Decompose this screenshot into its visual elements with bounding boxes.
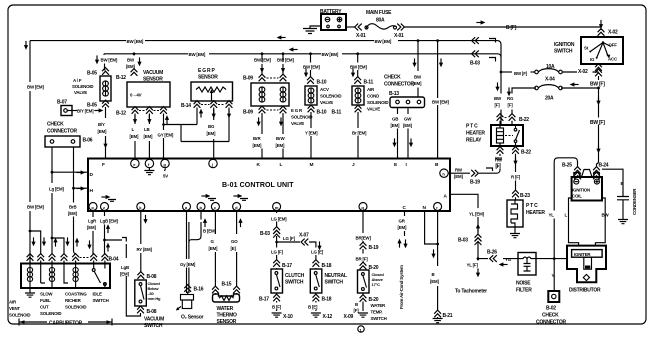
wire YL from coil minus via B-25 — [554, 158, 577, 259]
svg-text:CUT: CUT — [40, 305, 49, 310]
svg-text:[EM]: [EM] — [120, 272, 129, 277]
ground (battery) — [303, 29, 317, 34]
wire GB[EM] to pin E — [397, 108, 399, 160]
wire 20A branch from ignition feed — [597, 87, 600, 90]
wire link GY to EGRP left lead — [164, 124, 198, 126]
svg-text:TEMP.: TEMP. — [371, 310, 383, 315]
svg-text:BW [EM]: BW [EM] — [277, 58, 294, 63]
pin c (circled) — [211, 203, 219, 211]
wire BW[F] 10A branch — [501, 71, 512, 73]
svg-text:C: C — [403, 205, 407, 211]
svg-text:BW: BW — [127, 58, 135, 63]
wire battery to ground — [310, 26, 321, 28]
pin k (circled) — [137, 203, 145, 211]
svg-text:MAIN FUSE: MAIN FUSE — [366, 10, 392, 16]
svg-text:M: M — [310, 162, 314, 168]
pin d (circled) — [233, 203, 241, 211]
svg-text:BG: BG — [208, 124, 215, 129]
svg-text:CHECK: CHECK — [47, 122, 64, 128]
distributor — [567, 246, 606, 283]
svg-text:Lg [EM]: Lg [EM] — [49, 187, 64, 192]
svg-text:VALVE: VALVE — [367, 107, 380, 112]
svg-text:VALVE: VALVE — [291, 121, 304, 126]
wire feeder x64 — [51, 237, 54, 240]
svg-text:B-24: B-24 — [599, 163, 609, 169]
svg-text:B: B — [621, 181, 624, 186]
wire EGRP right lead — [228, 108, 230, 142]
svg-text:F: F — [102, 162, 105, 168]
condenser — [617, 197, 629, 220]
wire L[EM] to pin e — [134, 114, 136, 160]
wire RG[F] to relay — [507, 87, 511, 96]
connector B-03 marks on rails — [472, 37, 479, 44]
connector B-08 (bottom) — [137, 306, 144, 313]
wire EGRP left lead — [196, 108, 198, 125]
svg-text:IDLE: IDLE — [93, 292, 102, 297]
wire D: control unit to Lg feeder — [52, 147, 88, 238]
svg-text:B-18: B-18 — [322, 263, 332, 269]
O2 sensor — [176, 292, 194, 311]
svg-text:SOLENOID: SOLENOID — [9, 313, 30, 318]
svg-text:GB: GB — [392, 117, 398, 122]
branch hooks — [489, 39, 496, 43]
connector B-18 (bottom) — [313, 294, 320, 301]
vacuum switch — [135, 280, 147, 306]
connector B-23 — [512, 190, 519, 197]
svg-text:B [EM]: B [EM] — [203, 229, 216, 234]
svg-text:VALVE: VALVE — [320, 100, 333, 105]
svg-text:B-26: B-26 — [487, 250, 497, 256]
wire stubs into carburetor — [30, 261, 105, 264]
svg-text:To Tachometer: To Tachometer — [455, 289, 487, 295]
wire battery to fuse — [346, 26, 355, 28]
svg-text:SENSOR: SENSOR — [198, 75, 218, 81]
svg-text:10A: 10A — [546, 64, 555, 70]
svg-text:B-05: B-05 — [87, 71, 97, 77]
svg-text:5V: 5V — [163, 174, 168, 179]
neutral switch — [310, 269, 322, 293]
svg-text:COND: COND — [367, 94, 379, 99]
svg-text:X-02: X-02 — [578, 69, 588, 75]
air vent solenoid coil — [27, 264, 32, 289]
wire BG[EM] to pin j — [213, 108, 215, 160]
wire EGRP link lower — [181, 125, 229, 142]
svg-text:YL: YL — [549, 213, 555, 218]
svg-text:B [F]: B [F] — [272, 305, 282, 310]
svg-text:B-19: B-19 — [470, 180, 480, 186]
svg-text:SOLENOID: SOLENOID — [291, 115, 312, 120]
svg-text:SOLENOID: SOLENOID — [320, 94, 341, 99]
wire Gy[EM] O2 sensor pair — [187, 211, 189, 294]
P.T.C heater relay — [491, 125, 523, 146]
svg-text:LB: LB — [144, 127, 149, 132]
svg-text:From Air-Cond System: From Air-Cond System — [399, 265, 404, 309]
svg-text:B: B — [432, 272, 435, 277]
svg-text:X-02: X-02 — [608, 30, 618, 36]
svg-text:B: B — [435, 162, 439, 168]
svg-text:COIL: COIL — [572, 194, 582, 199]
svg-text:B-03: B-03 — [458, 238, 468, 244]
connector B-20 (top) — [360, 262, 367, 269]
svg-text:B-10: B-10 — [317, 80, 327, 86]
wire Br[EM] to pin J — [357, 112, 359, 159]
svg-text:B-02: B-02 — [546, 306, 556, 312]
svg-text:SOLENOID: SOLENOID — [40, 311, 61, 316]
wire LB[EM] to pin f — [148, 114, 150, 160]
wire pin N + pin r to ground B-21 — [425, 211, 438, 312]
ground icon (mid2 internal) — [233, 194, 248, 200]
wire Y to check connector B-02 — [553, 259, 555, 291]
svg-text:B-07: B-07 — [57, 100, 67, 106]
wire BW[EM] left vertical x=30 — [29, 41, 31, 264]
wire feeder x75.6 (BrB) — [74, 250, 76, 254]
wire Y[EM] to pin M — [310, 112, 312, 159]
svg-text:B-15: B-15 — [222, 282, 232, 288]
svg-text:FUEL: FUEL — [40, 298, 51, 303]
svg-text:SWITCH: SWITCH — [554, 49, 573, 55]
svg-text:CONNECTOR: CONNECTOR — [536, 320, 567, 326]
wire drop from rail2 — [133, 52, 136, 55]
svg-text:[EM]: [EM] — [253, 143, 262, 148]
svg-text:DISTRIBUTOR: DISTRIBUTOR — [569, 288, 601, 294]
wire feeder x52 (Lg) — [51, 238, 53, 254]
wire GW[EM] to pin I — [407, 108, 409, 160]
svg-text:B-09: B-09 — [243, 110, 253, 116]
svg-text:[F]: [F] — [495, 103, 501, 108]
svg-text:LgB: LgB — [121, 265, 129, 270]
svg-text:COASTING: COASTING — [65, 292, 87, 297]
svg-text:B-03: B-03 — [260, 231, 270, 237]
fuse 10A X-04 — [535, 69, 563, 74]
svg-text:B-12: B-12 — [116, 75, 126, 81]
svg-text:IGNITION: IGNITION — [554, 42, 575, 48]
svg-text:SLOW: SLOW — [40, 292, 53, 297]
svg-text:WATER: WATER — [217, 306, 234, 312]
svg-text:B [E]: B [E] — [308, 305, 318, 310]
pin m (circled) — [273, 203, 281, 211]
svg-text:IGNITER: IGNITER — [574, 252, 591, 257]
connector B-21 + ground — [434, 310, 441, 317]
svg-text:20A: 20A — [545, 96, 554, 102]
svg-text:B-19: B-19 — [369, 245, 379, 251]
wire R[F] relay contact to PTC heater — [515, 154, 517, 191]
wire BW[EM] to pin B — [436, 39, 439, 42]
carburetor measure line — [19, 319, 112, 326]
pin o (circled) — [89, 203, 97, 211]
svg-text:CHECK: CHECK — [542, 313, 559, 319]
svg-text:YG: YG — [505, 257, 512, 262]
svg-text:CARBURETOR: CARBURETOR — [49, 321, 83, 327]
svg-text:BR[EW]: BR[EW] — [356, 236, 372, 241]
wire drop to B-13 (from rail1) — [417, 39, 420, 42]
wire RY[EM] pin k to vacuum switch — [140, 211, 142, 273]
svg-text:BW [F]: BW [F] — [590, 120, 605, 126]
noise filter — [518, 253, 536, 276]
P.T.C heater — [507, 200, 523, 227]
svg-text:H: H — [90, 188, 94, 194]
svg-text:D: D — [90, 172, 94, 178]
connector B-20 (bottom) — [360, 295, 367, 302]
svg-text:CONNECTOR: CONNECTOR — [47, 129, 78, 135]
svg-text:B-09: B-09 — [243, 76, 253, 82]
svg-text:Gy [EM]: Gy [EM] — [180, 262, 196, 267]
svg-text:B-21: B-21 — [443, 313, 453, 319]
svg-text:K: K — [257, 162, 261, 168]
svg-text:J: J — [352, 162, 355, 168]
svg-text:AIR: AIR — [9, 300, 17, 305]
svg-text:E G R P: E G R P — [198, 68, 216, 74]
svg-text:X-12: X-12 — [323, 314, 333, 320]
wire LG[EM] pin m down — [276, 211, 278, 270]
svg-text:BW [EM]: BW [EM] — [127, 39, 144, 44]
svg-text:[F]: [F] — [508, 103, 514, 108]
svg-text:VACUUM: VACUUM — [144, 317, 164, 323]
svg-text:IGNITION: IGNITION — [572, 188, 590, 193]
svg-text:B-17: B-17 — [259, 297, 269, 303]
svg-text:B-14: B-14 — [181, 103, 191, 109]
svg-text:SOLENOID: SOLENOID — [367, 100, 388, 105]
svg-text:RICHER: RICHER — [65, 298, 82, 303]
svg-text:B-08: B-08 — [147, 309, 157, 315]
svg-text:B/Y [EM]: B/Y [EM] — [77, 109, 94, 114]
svg-text:BW [EM]: BW [EM] — [27, 205, 44, 210]
svg-text:P T C: P T C — [466, 124, 478, 130]
EGR solenoid valve — [251, 83, 289, 106]
svg-text:B [F]: B [F] — [506, 25, 517, 31]
svg-text:[F]: [F] — [354, 308, 360, 313]
water thermo sensor — [213, 293, 240, 302]
svg-text:ACC: ACC — [608, 57, 618, 62]
connector B-24 chevrons — [593, 167, 600, 180]
connector B-22 (top of relay) — [497, 114, 504, 121]
svg-text:O₂ Sensor: O₂ Sensor — [181, 315, 204, 321]
svg-text:[EM]: [EM] — [454, 174, 463, 179]
water temp switch — [358, 270, 370, 293]
svg-text:GW: GW — [404, 117, 412, 122]
svg-text:P T C: P T C — [526, 203, 538, 209]
svg-text:SOLENOID: SOLENOID — [65, 305, 86, 310]
wire feeder x40.7 from BW — [29, 230, 32, 233]
svg-text:[EM]: [EM] — [207, 131, 216, 136]
svg-text:GR: GR — [399, 219, 406, 224]
svg-text:[EM]: [EM] — [144, 134, 153, 139]
wire LgB branch to vacuum switch return — [103, 239, 106, 242]
wire BW[F] ignition switch down — [597, 64, 599, 164]
pin q (circled) — [359, 203, 367, 211]
svg-text:X-07: X-07 — [299, 233, 309, 239]
svg-text:VACUUM: VACUUM — [143, 70, 163, 76]
svg-text:A / F: A / F — [73, 78, 82, 83]
svg-text:mm·Hg: mm·Hg — [148, 296, 162, 301]
air cond solenoid valve — [352, 86, 364, 105]
check connector B-02 — [548, 291, 559, 302]
wire BR[EW] pin q down — [362, 211, 364, 271]
svg-text:WATER: WATER — [371, 303, 387, 308]
wire drops from rail2 — [261, 52, 264, 55]
svg-text:CONDENSER: CONDENSER — [632, 188, 637, 215]
wire merge vertical x=501 down to relay — [500, 45, 502, 126]
wire BrR[EM] to pin K — [261, 113, 263, 159]
svg-text:Y: Y — [552, 273, 555, 278]
svg-text:AIR: AIR — [367, 87, 375, 92]
svg-text:[EM]: [EM] — [98, 129, 107, 134]
svg-text:LG [EM]: LG [EM] — [271, 217, 287, 222]
svg-text:RG: RG — [507, 96, 514, 101]
svg-text:LG [F]: LG [F] — [283, 236, 295, 241]
connector B-19 — [360, 242, 367, 249]
svg-text:B-22: B-22 — [521, 150, 531, 156]
check connector B-06 — [45, 136, 80, 147]
svg-text:BrR: BrR — [253, 136, 261, 141]
connector B-17 (bottom) — [273, 294, 280, 301]
wire rail1 BW[EM] y=40.6 — [30, 41, 501, 45]
svg-text:SWITCH: SWITCH — [144, 323, 163, 329]
svg-text:BR [F]: BR [F] — [356, 257, 369, 262]
svg-text:[EM]: [EM] — [403, 123, 412, 128]
svg-text:B-11: B-11 — [331, 110, 341, 116]
svg-text:[EM]: [EM] — [430, 279, 439, 284]
pin b (circled) — [197, 203, 205, 211]
ACV solenoid valve — [305, 86, 317, 105]
svg-text:B-16: B-16 — [194, 287, 204, 293]
pin j (circled) — [209, 159, 217, 167]
connector B-11 (bottom) — [355, 105, 362, 112]
svg-text:BrB: BrB — [69, 205, 76, 210]
svg-text:17°C: 17°C — [372, 282, 380, 287]
svg-text:NEUTRAL: NEUTRAL — [325, 273, 347, 279]
svg-text:B-10: B-10 — [317, 110, 327, 116]
svg-text:B-04: B-04 — [109, 257, 119, 263]
svg-text:SOLENOID: SOLENOID — [72, 84, 93, 89]
ground (condenser) — [618, 220, 628, 224]
svg-text:BW [EM]: BW [EM] — [101, 58, 118, 63]
pin r (circled) — [434, 203, 442, 211]
wire drop — [310, 54, 312, 78]
slow fuel cut solenoid coil — [41, 264, 55, 289]
connector B-08 (top) — [137, 272, 144, 279]
wire drop — [357, 54, 359, 78]
svg-text:BrW: BrW — [276, 136, 285, 141]
svg-text:BW [F]: BW [F] — [590, 82, 605, 88]
svg-text:LgR: LgR — [88, 219, 97, 224]
pin z (circled) — [101, 203, 109, 211]
svg-text:[E]: [E] — [231, 246, 237, 251]
connector B-22 (bottom of relay) — [497, 147, 504, 154]
svg-text:BW [EM]: BW [EM] — [322, 52, 339, 57]
svg-text:B-17: B-17 — [282, 263, 292, 269]
svg-text:[EM]: [EM] — [68, 211, 77, 216]
connector B-04 row — [27, 254, 109, 261]
svg-text:B/Y: B/Y — [98, 122, 105, 127]
svg-text:[EM]: [EM] — [130, 134, 139, 139]
svg-text:[EM]: [EM] — [398, 225, 407, 230]
connector X-02 (top) — [598, 29, 605, 36]
svg-text:BW [EM]: BW [EM] — [254, 58, 271, 63]
svg-text:YL [F]: YL [F] — [467, 263, 479, 268]
svg-text:[EM]: [EM] — [391, 123, 400, 128]
svg-text:CONNECTOR: CONNECTOR — [384, 82, 415, 88]
svg-text:HEATER: HEATER — [526, 210, 545, 216]
svg-text:RW: RW — [495, 156, 503, 161]
svg-text:BW: BW — [602, 213, 610, 218]
svg-text:B-13: B-13 — [389, 91, 399, 97]
svg-text:SWITCH: SWITCH — [325, 280, 344, 286]
svg-text:X-04: X-04 — [545, 77, 555, 83]
carburetor box — [21, 264, 110, 289]
svg-text:B-08: B-08 — [147, 274, 157, 280]
svg-text:Y [EM]: Y [EM] — [305, 131, 318, 136]
battery — [321, 14, 346, 30]
pin f (circled) — [145, 159, 153, 167]
svg-text:CLUTCH: CLUTCH — [285, 273, 305, 279]
wire B/Y[EM] down to pin F — [105, 107, 107, 159]
svg-text:B-06: B-06 — [83, 138, 93, 144]
ground (pin f internal) — [148, 168, 150, 170]
svg-text:B-23: B-23 — [520, 193, 530, 199]
svg-text:[F]: [F] — [496, 163, 502, 168]
svg-text:VENT: VENT — [9, 306, 20, 311]
main fuse 80A — [355, 24, 405, 31]
svg-text:X-10: X-10 — [283, 314, 293, 320]
svg-text:SWITCH: SWITCH — [285, 280, 304, 286]
svg-text:RY [EM]: RY [EM] — [137, 247, 153, 252]
connector B-16 — [184, 285, 191, 292]
svg-text:GY [EM]: GY [EM] — [158, 133, 174, 138]
svg-text:B-18: B-18 — [322, 297, 332, 303]
pin h (circled) — [440, 169, 448, 177]
svg-text:BW [EM]: BW [EM] — [189, 52, 206, 57]
wire YL[EM] pin A down — [450, 194, 478, 260]
svg-text:LG [E]: LG [E] — [311, 250, 324, 255]
pin e (circled) — [131, 159, 139, 167]
wire L coil to igniter — [569, 198, 579, 246]
svg-text:B-20: B-20 — [369, 265, 379, 271]
wire G[EM] pin c to thermo sensor — [214, 211, 216, 287]
svg-text:X-09: X-09 — [344, 314, 354, 320]
fuse 20A — [535, 85, 563, 90]
ground icon (left internal) — [101, 195, 116, 201]
wire noise filter to distributor — [536, 258, 567, 260]
svg-text:[EM]: [EM] — [209, 246, 218, 251]
svg-text:YL [EM]: YL [EM] — [469, 212, 485, 217]
ground icon (mid internal) — [201, 194, 216, 200]
ignition coil — [572, 170, 602, 201]
svg-text:BW [EM]: BW [EM] — [375, 39, 392, 44]
svg-text:B-03: B-03 — [470, 61, 480, 67]
wire H: control unit to BrB feeder — [74, 147, 89, 250]
svg-text:0→4V: 0→4V — [130, 93, 142, 98]
idle switch — [92, 264, 106, 289]
svg-text:NOISE: NOISE — [516, 281, 531, 287]
connector B-25 chevrons — [574, 167, 581, 180]
5V label — [165, 169, 166, 172]
svg-text:X-01: X-01 — [394, 33, 404, 39]
svg-text:z: z — [103, 205, 105, 210]
wire feeder x93 (LgR from pin o) — [92, 211, 94, 255]
vacuum sensor — [127, 82, 170, 107]
wire GR[EM] pin C — [404, 211, 406, 236]
svg-text:RW: RW — [455, 168, 463, 173]
svg-text:[EM]: [EM] — [276, 143, 285, 148]
svg-text:[EM]: [EM] — [87, 225, 96, 230]
wire rail2 BW[EM] y=53.8 — [104, 54, 501, 57]
footnote circle 1 — [358, 326, 364, 333]
coasting richer solenoid coil — [64, 264, 78, 289]
svg-text:ACV: ACV — [320, 87, 329, 92]
wire A/F drop from rail2 — [103, 54, 106, 69]
wire + ground (air vent) — [29, 288, 31, 293]
svg-text:A: A — [444, 194, 448, 200]
